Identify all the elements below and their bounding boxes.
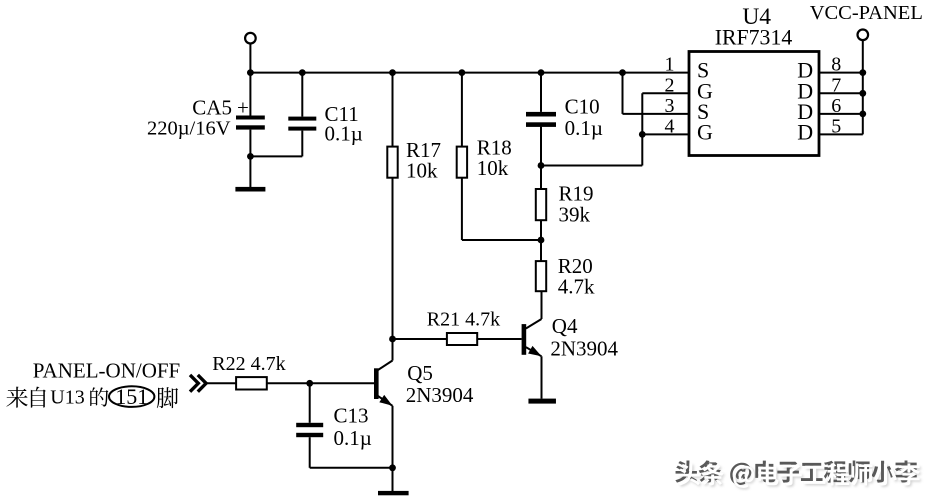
svg-text:6: 6 [831,95,841,117]
svg-text:+: + [237,95,249,119]
svg-text:4: 4 [665,115,675,137]
svg-text:R22 4.7k: R22 4.7k [212,353,285,375]
svg-text:220µ/16V: 220µ/16V [147,117,231,139]
svg-text:R21 4.7k: R21 4.7k [427,309,500,331]
svg-text:D: D [797,119,813,144]
svg-text:G: G [697,119,713,144]
svg-text:10k: 10k [406,159,438,183]
svg-text:10k: 10k [477,156,509,180]
svg-text:IRF7314: IRF7314 [715,26,793,50]
svg-text:Q5: Q5 [407,361,433,385]
svg-text:U13: U13 [50,387,84,409]
svg-text:VCC-PANEL: VCC-PANEL [810,2,923,24]
svg-text:7: 7 [831,74,841,96]
svg-text:151: 151 [115,384,148,409]
svg-text:1: 1 [665,54,675,76]
svg-text:39k: 39k [559,203,591,227]
svg-text:5: 5 [831,115,841,137]
svg-text:CA5: CA5 [192,95,232,119]
svg-text:8: 8 [831,54,841,76]
svg-text:0.1µ: 0.1µ [565,116,603,140]
svg-text:2N3904: 2N3904 [406,383,474,407]
svg-text:2: 2 [665,74,675,96]
svg-text:PANEL-ON/OFF: PANEL-ON/OFF [33,358,180,382]
svg-text:3: 3 [665,95,675,117]
svg-text:C13: C13 [334,404,369,428]
svg-text:2N3904: 2N3904 [550,337,618,361]
svg-text:4.7k: 4.7k [558,275,595,299]
svg-text:Q4: Q4 [552,314,578,338]
svg-text:0.1µ: 0.1µ [334,426,372,450]
svg-text:0.1µ: 0.1µ [325,122,363,146]
